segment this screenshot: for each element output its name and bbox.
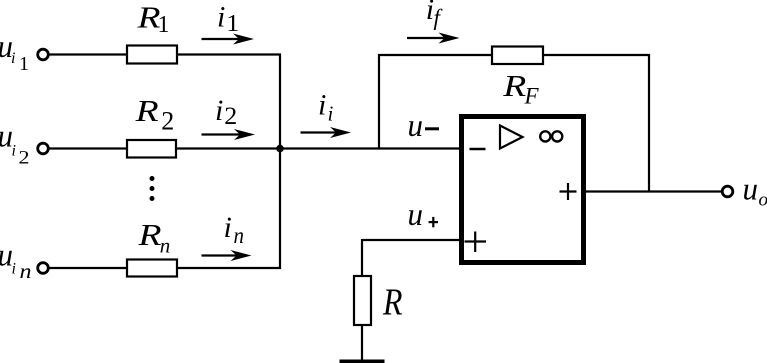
wire u_i1 to R1 <box>49 53 128 55</box>
output wire op-amp to terminal <box>584 190 723 192</box>
svg-text:u: u <box>743 171 759 207</box>
op-amp output plus sign <box>560 183 577 200</box>
svg-text:i: i <box>328 102 334 126</box>
svg-text:i: i <box>12 261 16 278</box>
label u_in <box>0 237 32 284</box>
label u_i1 <box>0 28 29 75</box>
svg-text:1: 1 <box>158 12 170 38</box>
svg-text:i: i <box>318 89 326 122</box>
resistor R2 <box>127 140 176 158</box>
label u+ (non-inverting input node) <box>408 196 439 232</box>
wire Rn to node column <box>177 267 281 269</box>
output terminal u_o <box>722 186 733 197</box>
svg-text:F: F <box>524 84 540 109</box>
label u- (inverting input node) <box>408 107 440 143</box>
svg-text:i: i <box>217 1 225 34</box>
resistor Rn <box>127 260 177 277</box>
wire u+ to op-amp non-inverting input <box>362 239 461 241</box>
feedback wire top horizontal <box>378 54 650 56</box>
wire u_i2 to R2 <box>49 147 128 149</box>
label Rn <box>137 217 170 258</box>
wire u_in to Rn <box>49 267 128 269</box>
label u_i2 <box>0 118 30 169</box>
resistor R1 <box>127 46 177 64</box>
svg-text:i: i <box>12 143 16 160</box>
op-amp inverting input minus sign <box>470 148 486 151</box>
label u_o <box>743 171 767 211</box>
current arrow i2 <box>202 129 256 140</box>
vertical dots ellipsis <box>150 176 155 201</box>
junction node dot <box>276 145 284 153</box>
label in <box>224 211 245 248</box>
label R2 <box>134 93 174 136</box>
op-amp non-inverting input plus sign <box>465 232 487 253</box>
svg-text:R: R <box>134 93 158 128</box>
wire resistor R to ground <box>361 325 363 361</box>
current arrow in <box>202 250 252 261</box>
svg-text:u: u <box>408 196 424 232</box>
wire vertical down to resistor R <box>361 239 363 277</box>
svg-text:R: R <box>502 68 526 103</box>
wire vertical row n up to junction <box>279 149 281 270</box>
op-amp infinity symbol <box>540 131 562 141</box>
label i_f <box>426 0 444 30</box>
svg-text:1: 1 <box>19 53 29 75</box>
svg-text:n: n <box>160 236 171 258</box>
svg-text:R: R <box>137 217 161 252</box>
svg-text:1: 1 <box>226 11 239 37</box>
svg-text:n: n <box>234 223 245 248</box>
ground <box>340 360 385 363</box>
svg-text:2: 2 <box>19 148 30 169</box>
svg-text:R: R <box>382 282 402 324</box>
resistor R <box>354 276 371 325</box>
label i1 <box>217 1 239 38</box>
svg-text:i: i <box>215 94 223 127</box>
label i2 <box>215 94 237 130</box>
op-amp triangle symbol <box>500 126 523 149</box>
feedback wire right vertical <box>648 54 650 193</box>
wire junction to op-amp inverting input <box>280 147 461 149</box>
feedback wire left vertical <box>378 54 380 149</box>
current arrow i_f <box>407 33 460 44</box>
wire R2 to junction <box>175 147 281 149</box>
input terminal u_i1 <box>38 49 49 60</box>
label i_i <box>318 89 334 126</box>
wire vertical row1 down to junction <box>279 54 281 150</box>
current arrow i_i <box>301 127 352 138</box>
current arrow i1 <box>202 34 255 45</box>
wire R1 to node column <box>176 53 281 55</box>
op-amp U1 body <box>462 117 584 263</box>
svg-text:i: i <box>224 211 232 244</box>
svg-text:u: u <box>408 107 424 143</box>
svg-text:i: i <box>11 50 15 67</box>
input terminal u_i2 <box>38 143 49 154</box>
svg-text:n: n <box>20 259 32 283</box>
label R1 <box>136 0 169 38</box>
input terminal u_in <box>38 263 49 274</box>
label RF <box>502 68 539 109</box>
svg-text:2: 2 <box>161 107 174 136</box>
svg-text:o: o <box>759 190 767 211</box>
resistor RF <box>492 47 543 65</box>
svg-text:2: 2 <box>224 103 237 130</box>
